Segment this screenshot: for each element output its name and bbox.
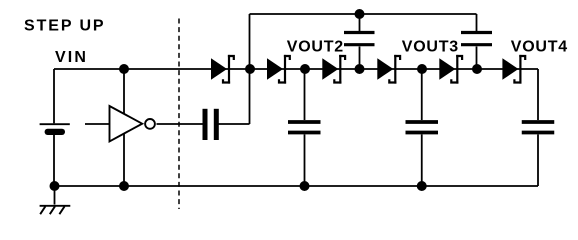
svg-text:VIN: VIN [55,49,88,66]
svg-text:VOUT4: VOUT4 [511,39,568,56]
svg-text:VOUT2: VOUT2 [287,39,344,56]
svg-text:STEP UP: STEP UP [24,17,105,34]
svg-text:VOUT3: VOUT3 [402,39,459,56]
